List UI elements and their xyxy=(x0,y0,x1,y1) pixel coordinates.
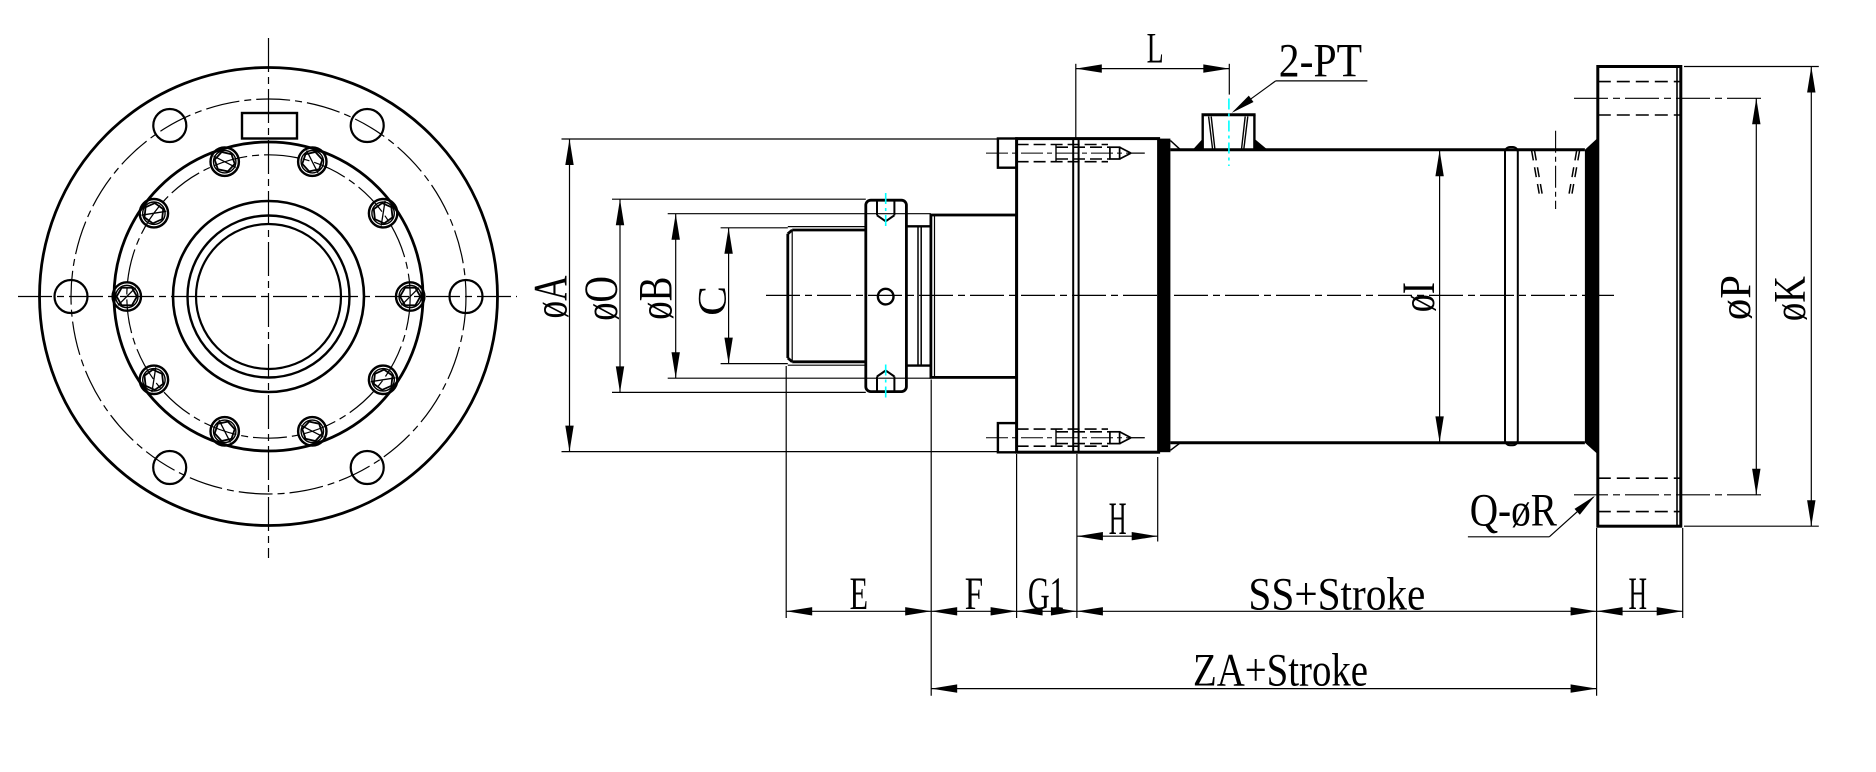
2-PT label and leader xyxy=(1234,81,1367,111)
plate bottom cyan centerline xyxy=(885,365,887,400)
socket bolt 4 xyxy=(211,148,239,176)
socket bolt 5 xyxy=(140,199,168,227)
hidden rear port dashed lines xyxy=(1532,151,1580,194)
mounting hole 6 xyxy=(351,451,384,484)
socket bolt 1 xyxy=(396,282,424,310)
rod end plate xyxy=(866,200,907,391)
rear cap black band xyxy=(1585,138,1598,454)
svg-text:Q-øR: Q-øR xyxy=(1470,485,1558,537)
rod thread crest thin lines xyxy=(788,227,866,366)
cylinder tube bottom edge xyxy=(1170,441,1585,444)
svg-text:2-PT: 2-PT xyxy=(1279,35,1362,88)
head chamfer top xyxy=(1170,141,1180,150)
svg-text:øA: øA xyxy=(524,275,577,318)
plate top notch xyxy=(877,200,894,221)
port boss thread taper lines xyxy=(1209,117,1248,150)
rear flange inner face line xyxy=(1676,67,1678,527)
cylinder head circle xyxy=(114,142,423,451)
gland circle xyxy=(188,216,350,378)
socket bolt 9 xyxy=(298,417,326,445)
socket bolt 8 xyxy=(211,417,239,445)
head chamfer bottom xyxy=(1170,443,1180,451)
svg-text:øP: øP xyxy=(1711,275,1760,320)
flange-head joint lines xyxy=(1073,139,1078,453)
svg-text:C: C xyxy=(690,286,735,316)
dimension oP xyxy=(1755,98,1757,495)
socket bolt 6 xyxy=(113,282,141,310)
dimension øA xyxy=(562,139,998,452)
svg-text:øK: øK xyxy=(1765,276,1815,322)
svg-text:øO: øO xyxy=(575,276,628,321)
rear flange bottom hole centerline xyxy=(1574,494,1764,496)
dimension C xyxy=(721,228,788,364)
front bolt hole circle (dash-dot) xyxy=(71,99,466,494)
svg-text:F: F xyxy=(965,568,983,620)
port weld fillet right xyxy=(1254,139,1267,150)
front port boss xyxy=(1202,115,1256,150)
gland housing xyxy=(931,215,1017,377)
socket screw side view top xyxy=(986,139,1145,168)
svg-text:G1: G1 xyxy=(1028,568,1065,620)
rear flange top hidden hole xyxy=(1598,82,1681,115)
front view vertical centerline xyxy=(268,38,270,558)
head bolt circle (dash-dot) xyxy=(127,155,410,438)
socket bolt 7 xyxy=(140,366,168,394)
port boss rectangle front view xyxy=(242,113,297,139)
dimension H head xyxy=(1077,457,1158,542)
plate bottom notch xyxy=(877,371,894,392)
plate top cyan centerline xyxy=(885,193,887,228)
svg-text:H: H xyxy=(1109,493,1127,545)
socket bolt 10 xyxy=(369,366,397,394)
rear flange top hole centerline xyxy=(1574,97,1764,99)
svg-text:øI: øI xyxy=(1393,282,1445,312)
svg-text:ZA+Stroke: ZA+Stroke xyxy=(1193,645,1368,697)
svg-text:E: E xyxy=(850,568,868,620)
mounting hole 4 xyxy=(55,280,88,313)
dimension ZA+Stroke xyxy=(931,688,1596,690)
neck groove lines xyxy=(918,226,921,365)
bottom dimension row line xyxy=(786,610,1682,612)
plate center hole xyxy=(878,289,894,305)
svg-text:H: H xyxy=(1629,568,1648,620)
mounting hole 5 xyxy=(153,451,186,484)
hidden rear port centerline xyxy=(1555,131,1557,209)
rear flange bottom hidden hole xyxy=(1598,478,1681,511)
front flange outer circle xyxy=(40,68,498,526)
rod thread outline xyxy=(788,230,866,362)
socket bolt 3 xyxy=(298,148,326,176)
mounting hole 2 xyxy=(351,109,384,142)
head flange block outline xyxy=(1017,139,1159,453)
port weld fillet left xyxy=(1193,139,1203,150)
Q-oR label and leader xyxy=(1468,497,1594,537)
dimension øO xyxy=(612,199,866,392)
svg-text:øB: øB xyxy=(630,277,683,320)
mounting hole 3 xyxy=(153,109,186,142)
gland chamfer line xyxy=(934,215,936,377)
head-tube black band xyxy=(1159,139,1171,453)
rod thread circle xyxy=(196,224,341,369)
cylinder tube top edge xyxy=(1170,148,1585,151)
dimension øB xyxy=(668,214,931,379)
mounting hole 1 xyxy=(450,280,483,313)
socket bolt 2 xyxy=(369,199,397,227)
rear flange outline xyxy=(1598,67,1681,527)
extension lines bottom dimensions xyxy=(786,366,1682,696)
tube weld ring xyxy=(1505,147,1518,445)
rod plate circle xyxy=(173,201,364,392)
dimension oI xyxy=(1439,150,1441,443)
svg-text:L: L xyxy=(1147,26,1164,73)
socket screw side view bottom xyxy=(986,423,1145,452)
thread relief neck xyxy=(906,226,931,365)
dimension oK xyxy=(1684,67,1819,527)
front view horizontal centerline xyxy=(18,296,517,298)
svg-text:SS+Stroke: SS+Stroke xyxy=(1248,569,1425,621)
side view centerline xyxy=(766,294,1614,296)
port cyan centerline xyxy=(1228,99,1230,167)
dimension L xyxy=(1076,64,1230,139)
